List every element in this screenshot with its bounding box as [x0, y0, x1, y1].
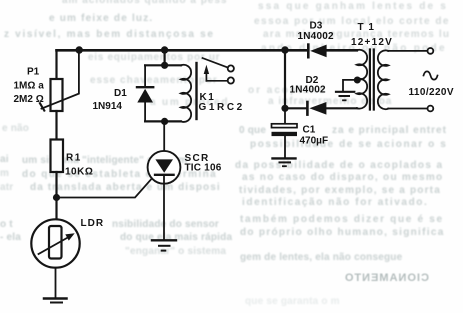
- LDR arrow: [39, 237, 70, 254]
- node: relay bottom: [161, 118, 168, 125]
- wire: LDR to ground: [55, 268, 57, 298]
- LDR body rect: [49, 226, 62, 259]
- svg-text:C1: C1: [303, 124, 316, 135]
- wire: rail to relay branch: [164, 50, 166, 65]
- potentiometer P1 wiper: [42, 50, 79, 108]
- node: relay top: [161, 62, 168, 69]
- relay contact blade: [203, 58, 228, 67]
- wire: R1 to LDR: [55, 172, 57, 219]
- node: R1/LDR/gate junction: [53, 194, 60, 201]
- node: rectifier mid: [281, 105, 288, 112]
- wire: relay top link: [145, 64, 181, 66]
- svg-text:470µF: 470µF: [300, 135, 329, 146]
- ground: center tap: [336, 91, 354, 93]
- svg-text:2M2 Ω: 2M2 Ω: [14, 94, 44, 105]
- transformer T1 primary winding: [378, 50, 388, 109]
- capacitor C1: [284, 108, 286, 124]
- wire: gate wire to SCR: [57, 176, 155, 198]
- wire: primary top terminal: [388, 50, 427, 52]
- resistor R1 body: [51, 140, 64, 173]
- wire: relay bottom to SCR anode: [163, 121, 165, 158]
- node: rail / relay branch: [161, 46, 168, 53]
- diode D2: [285, 107, 307, 109]
- wire: P1 to R1: [55, 111, 57, 140]
- svg-text:1N914: 1N914: [93, 101, 123, 112]
- wire: center tap to ground: [343, 80, 357, 91]
- transformer T1 core: [370, 50, 374, 110]
- wire: SCR cathode to ground: [163, 175, 165, 239]
- svg-text:D3: D3: [310, 20, 323, 31]
- wire: P1 top connection: [55, 50, 57, 79]
- wire: primary bottom terminal: [388, 108, 427, 110]
- svg-text:TIC 106: TIC 106: [185, 162, 222, 173]
- SCR circle: [148, 151, 181, 184]
- svg-text:T 1: T 1: [358, 22, 375, 33]
- wire: rectifier output down: [284, 50, 286, 108]
- svg-text:D1: D1: [114, 88, 127, 99]
- SCR cathode bar: [155, 174, 174, 176]
- svg-text:12+12V: 12+12V: [351, 37, 393, 48]
- svg-text:1N4002: 1N4002: [298, 31, 334, 42]
- node: rail / rectifier: [281, 46, 288, 53]
- diode D1: [144, 65, 146, 86]
- svg-text:P1: P1: [27, 67, 40, 78]
- node: rail / P1 wiper junction: [76, 46, 83, 53]
- ground: SCR: [152, 239, 176, 241]
- svg-text:1N4002: 1N4002: [290, 85, 326, 96]
- AC tilde symbol: [424, 71, 438, 79]
- svg-text:10KΩ: 10KΩ: [65, 167, 93, 178]
- svg-text:R1: R1: [66, 153, 82, 164]
- wire: top +V rail: [57, 49, 308, 52]
- relay switch arrow: [205, 74, 207, 81]
- wire: rail segment D3 to T1 secondary: [327, 49, 357, 52]
- ground: C1: [273, 157, 296, 159]
- relay K1 coil: [181, 65, 191, 122]
- diode D3: [307, 45, 310, 58]
- SCR triangle: [155, 159, 173, 172]
- LDR circle: [31, 219, 79, 267]
- svg-text:1MΩ a: 1MΩ a: [14, 80, 45, 91]
- wire: relay bottom link: [145, 120, 181, 122]
- relay contact terminals: [228, 65, 234, 71]
- svg-text:LDR: LDR: [81, 218, 105, 229]
- ground: LDR: [44, 297, 67, 300]
- relay K1 core bar: [195, 63, 197, 119]
- svg-text:G1RC2: G1RC2: [199, 102, 245, 113]
- faint bleed-through background text: [62, 0, 227, 6]
- transformer T1 secondary winding: [357, 50, 367, 109]
- node: T1 center tap: [354, 77, 361, 84]
- potentiometer P1 body: [51, 79, 63, 111]
- svg-text:110/220V: 110/220V: [409, 87, 454, 98]
